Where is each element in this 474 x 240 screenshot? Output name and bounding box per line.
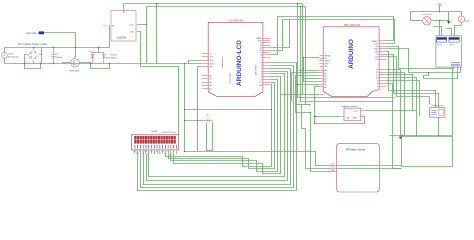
wire bridge underloop	[25, 64, 41, 69]
svg-text:IN-: IN-	[112, 26, 115, 28]
wire motor to relay	[455, 26, 462, 36]
svg-text:230V: 230V	[8, 54, 14, 56]
wire bridge bottom	[33, 63, 35, 64]
sensor U5 PIR motion	[331, 144, 380, 192]
wire net lcd c3	[171, 80, 278, 172]
wire relay b	[434, 27, 442, 36]
wire Q1 left lead	[63, 63, 69, 64]
wire below boards b3	[301, 7, 394, 102]
relay module U6	[436, 36, 462, 67]
lcd pin labels	[133, 150, 178, 155]
wire a2r 12	[387, 73, 405, 136]
junction bridge right	[40, 63, 42, 65]
buck module U2 LM2596	[104, 8, 139, 42]
wire W1 from LM2596 top	[124, 4, 303, 8]
svg-text:M: M	[460, 19, 462, 21]
wire vert to pir2	[302, 105, 332, 169]
wire sensor left	[316, 116, 341, 118]
svg-text:LM2596: LM2596	[117, 36, 127, 40]
svg-text:GND: GND	[209, 60, 214, 62]
AC source G1 230V	[1, 52, 19, 58]
arduino U3 MINI-ARDUINO	[323, 24, 379, 97]
junction loop right	[109, 63, 111, 65]
transistor Q1 regulator	[69, 57, 82, 73]
svg-text:GND2: GND2	[209, 63, 215, 65]
wire a2 a4	[304, 69, 320, 82]
wire out+ vertical	[146, 7, 148, 64]
svg-text:ARDUINO-LCD: ARDUINO-LCD	[236, 40, 243, 86]
svg-text:OUT+: OUT+	[129, 25, 135, 27]
junction a5	[297, 84, 299, 86]
junction sensor left	[315, 116, 317, 118]
wire D1 down	[92, 60, 94, 64]
diode D2	[102, 53, 118, 60]
svg-text:GND: GND	[353, 118, 358, 120]
wire pin drop	[198, 67, 202, 121]
wire net lcd d5	[138, 63, 297, 191]
svg-text:Car heater: Car heater	[422, 13, 433, 16]
svg-text:1N5822: 1N5822	[110, 55, 118, 57]
wire relay to loop right	[452, 67, 454, 136]
svg-text:1602A: 1602A	[151, 130, 158, 133]
junction cap bottom	[53, 63, 55, 65]
svg-text:VIN: VIN	[209, 67, 213, 69]
wire net up c5	[271, 20, 290, 48]
junction sensor out	[416, 135, 418, 137]
svg-text:VSS: VSS	[133, 151, 136, 153]
wire staircase s2	[387, 55, 439, 108]
wire diode header	[98, 48, 100, 53]
wire a2 a0	[301, 70, 320, 72]
junction heater gnd	[448, 20, 450, 22]
motor M1 car heater	[421, 13, 434, 25]
junction sensor b	[314, 123, 316, 125]
wire a2r 10	[387, 78, 417, 111]
wire sensor out	[365, 111, 417, 136]
wire AC bottom to rail	[4, 59, 6, 64]
wire vert to pir1	[296, 105, 332, 172]
junction cap top	[53, 47, 55, 49]
wire a2r 11	[387, 75, 413, 111]
svg-text:Door park: Door park	[27, 32, 38, 35]
ground G2	[447, 12, 451, 24]
wire W2 end drop	[305, 7, 307, 105]
junction q2 base	[184, 120, 186, 122]
svg-text:MINI-ARDUINO: MINI-ARDUINO	[344, 24, 360, 27]
junction b4	[309, 104, 311, 106]
svg-text:LCD-ARDUINO: LCD-ARDUINO	[228, 19, 244, 22]
wire net lcd c2	[169, 83, 275, 169]
wire sensor gnd row	[315, 117, 365, 124]
wire pir vcc	[185, 152, 332, 166]
junction door park rail	[75, 47, 77, 49]
wire heater right	[434, 20, 449, 22]
wire door park to regulator	[45, 33, 76, 58]
svg-text:IRF9540N: IRF9540N	[70, 70, 80, 72]
wire pir vcc across	[337, 165, 402, 167]
junction a2b	[303, 68, 305, 70]
wire bottom loop	[402, 137, 453, 167]
wire servo drop	[438, 118, 440, 136]
junction w1 drop	[156, 3, 158, 5]
junction heater relay	[439, 20, 441, 22]
svg-text:Documents: Documents	[229, 73, 232, 84]
junction diode rail	[98, 47, 100, 49]
junction bridge left	[24, 63, 26, 65]
power flag +12V	[437, 3, 443, 11]
motor M2	[458, 16, 470, 26]
junction b3 a0	[300, 70, 302, 72]
wire relay c	[447, 29, 452, 36]
junction out+	[146, 24, 148, 26]
junction loop a	[402, 135, 404, 137]
svg-text:UNO R3V3: UNO R3V3	[256, 64, 258, 75]
wire long mid horizontal	[185, 109, 272, 111]
svg-text:RLY1: RLY1	[438, 44, 442, 46]
lcd module LCD1 1602A	[132, 130, 179, 150]
diode D1	[89, 51, 94, 60]
wire net lcd d2	[147, 72, 288, 181]
wire D2 down	[103, 60, 105, 64]
svg-text:RLY2: RLY2	[450, 44, 454, 46]
wire W4 over arduino2	[271, 20, 395, 51]
svg-text:60A 1-phase bridge rectifier: 60A 1-phase bridge rectifier	[18, 43, 47, 46]
arduino2 right pins	[371, 41, 386, 89]
wire rail to lcd-arduino pins	[189, 61, 202, 64]
wire q2 base	[185, 120, 204, 122]
wire q2 vert1	[207, 123, 213, 151]
arduino U1 ARDUINO-LCD	[208, 19, 263, 96]
wire heater left	[411, 20, 421, 22]
wire bridge ac in	[25, 55, 27, 64]
wire W1 drop a	[297, 4, 299, 98]
wire servo branch	[424, 68, 458, 79]
svg-text:Motor Servo: Motor Servo	[432, 104, 445, 107]
svg-text:D2 1N5822: D2 1N5822	[106, 57, 117, 59]
wire below boards b2	[298, 97, 395, 99]
junction pir1	[310, 112, 312, 114]
wire a2r 9	[387, 81, 420, 117]
wire a2 a5	[298, 84, 320, 86]
wire net lcd d3	[144, 69, 291, 185]
svg-text:GND: GND	[331, 170, 336, 172]
wire W3 over arduino2	[271, 17, 394, 55]
junction bridge top	[33, 47, 35, 49]
junction mid horizontal	[184, 109, 186, 111]
wire bypass loop	[91, 64, 110, 69]
wire a2 a2pin	[296, 76, 320, 105]
svg-text:PIR Motion Sensor: PIR Motion Sensor	[346, 148, 366, 151]
wire top rail	[5, 26, 110, 48]
wire AC top to rail	[4, 48, 6, 53]
wire net lcd c1	[166, 85, 272, 167]
ground G3	[399, 136, 403, 140]
wire heater to relay a	[439, 21, 441, 36]
arduino-lcd left pins	[202, 53, 216, 90]
bridge rectifier D3	[27, 48, 41, 63]
servo M3 Motor Servo	[430, 104, 445, 117]
wire 12v rail	[411, 12, 462, 21]
svg-text:VIN: VIN	[324, 66, 328, 68]
wire net lcd d1	[149, 74, 285, 177]
wire below boards b4	[296, 104, 310, 106]
wire staircase s3	[387, 57, 430, 105]
junction 12v	[439, 11, 441, 13]
wire a2r 13	[387, 70, 401, 136]
junction loop b	[438, 135, 440, 137]
svg-text:+12V: +12V	[437, 3, 443, 5]
junction b3 top	[300, 6, 302, 8]
wire loop row	[390, 135, 453, 137]
wire out- vertical	[139, 32, 179, 135]
wire bridge plus up	[41, 54, 42, 56]
svg-text:LCD16X2 chars: LCD16X2 chars	[161, 131, 176, 134]
svg-text:ARDUINO: ARDUINO	[348, 39, 355, 69]
arduino2 left pins	[320, 56, 332, 89]
wire below boards b1	[281, 94, 324, 96]
wire vert sensor	[315, 87, 320, 124]
svg-text:motor: motor	[465, 20, 471, 23]
wire bottom rail	[5, 63, 202, 65]
wire pir out across	[337, 168, 402, 170]
junction servo branch	[428, 72, 430, 74]
svg-text:magnetic sensor: magnetic sensor	[342, 105, 358, 108]
junction loop left	[90, 63, 92, 65]
wire pin drop lower	[197, 121, 199, 152]
junction mid horizontal b	[271, 109, 273, 111]
net flag Door park	[27, 31, 45, 34]
svg-text:4700uF: 4700uF	[55, 57, 63, 59]
svg-text:AC Supply: AC Supply	[8, 55, 19, 58]
junction sensor a	[314, 116, 316, 118]
svg-text:+VS: +VS	[345, 118, 350, 120]
wire a2 reset	[304, 58, 320, 69]
wire net lcd d4	[141, 66, 294, 188]
lcd pin stubs	[135, 150, 177, 154]
sensor U4 magnetic	[341, 105, 365, 121]
junction power drop top	[184, 63, 186, 65]
wire Q1 right lead	[82, 63, 91, 64]
wire W1 end drop	[302, 4, 304, 95]
wire staircase s1	[387, 52, 436, 108]
wire relay out1 to arduino	[387, 47, 454, 69]
svg-text:OUT-: OUT-	[130, 31, 135, 33]
arduino-lcd right pins	[257, 37, 271, 87]
capacitor C1 4700uF	[52, 48, 63, 64]
junction W1a	[297, 3, 299, 5]
wire relay out2 to arduino	[387, 49, 461, 73]
transistor Q2	[204, 115, 213, 122]
junction pir vcc	[184, 151, 186, 153]
wire a2 a3	[304, 78, 320, 80]
svg-text:Dimensione: Dimensione	[222, 56, 224, 68]
wire W2 from LM2596 out+	[139, 24, 147, 26]
wire a2r 8	[387, 84, 402, 169]
wire net lcd c4	[174, 77, 281, 174]
wire a2 a1	[292, 73, 320, 102]
svg-text:D2: D2	[156, 151, 158, 153]
junction a2	[303, 57, 305, 59]
wire vertical power drop	[184, 64, 186, 152]
wire vertical w1 drop	[156, 4, 158, 64]
